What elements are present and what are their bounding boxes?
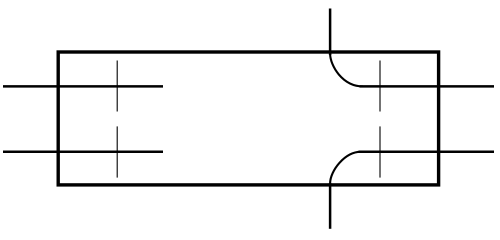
wire: left top lead — [3, 85, 163, 88]
terminal tick T3 — [379, 61, 381, 112]
terminal tick T1 — [116, 61, 118, 112]
wire: right bottom lead — [359, 151, 495, 154]
fillet arc top — [330, 54, 363, 87]
wire: bottom vertical lead — [329, 183, 332, 229]
terminal tick T4 — [379, 126, 381, 177]
wire: left bottom lead — [3, 151, 163, 154]
wire: right top lead — [360, 85, 495, 88]
wire: top vertical lead — [329, 9, 332, 56]
fillet arc bottom — [330, 152, 361, 184]
component box U1 — [58, 52, 438, 185]
terminal tick T2 — [116, 126, 118, 177]
